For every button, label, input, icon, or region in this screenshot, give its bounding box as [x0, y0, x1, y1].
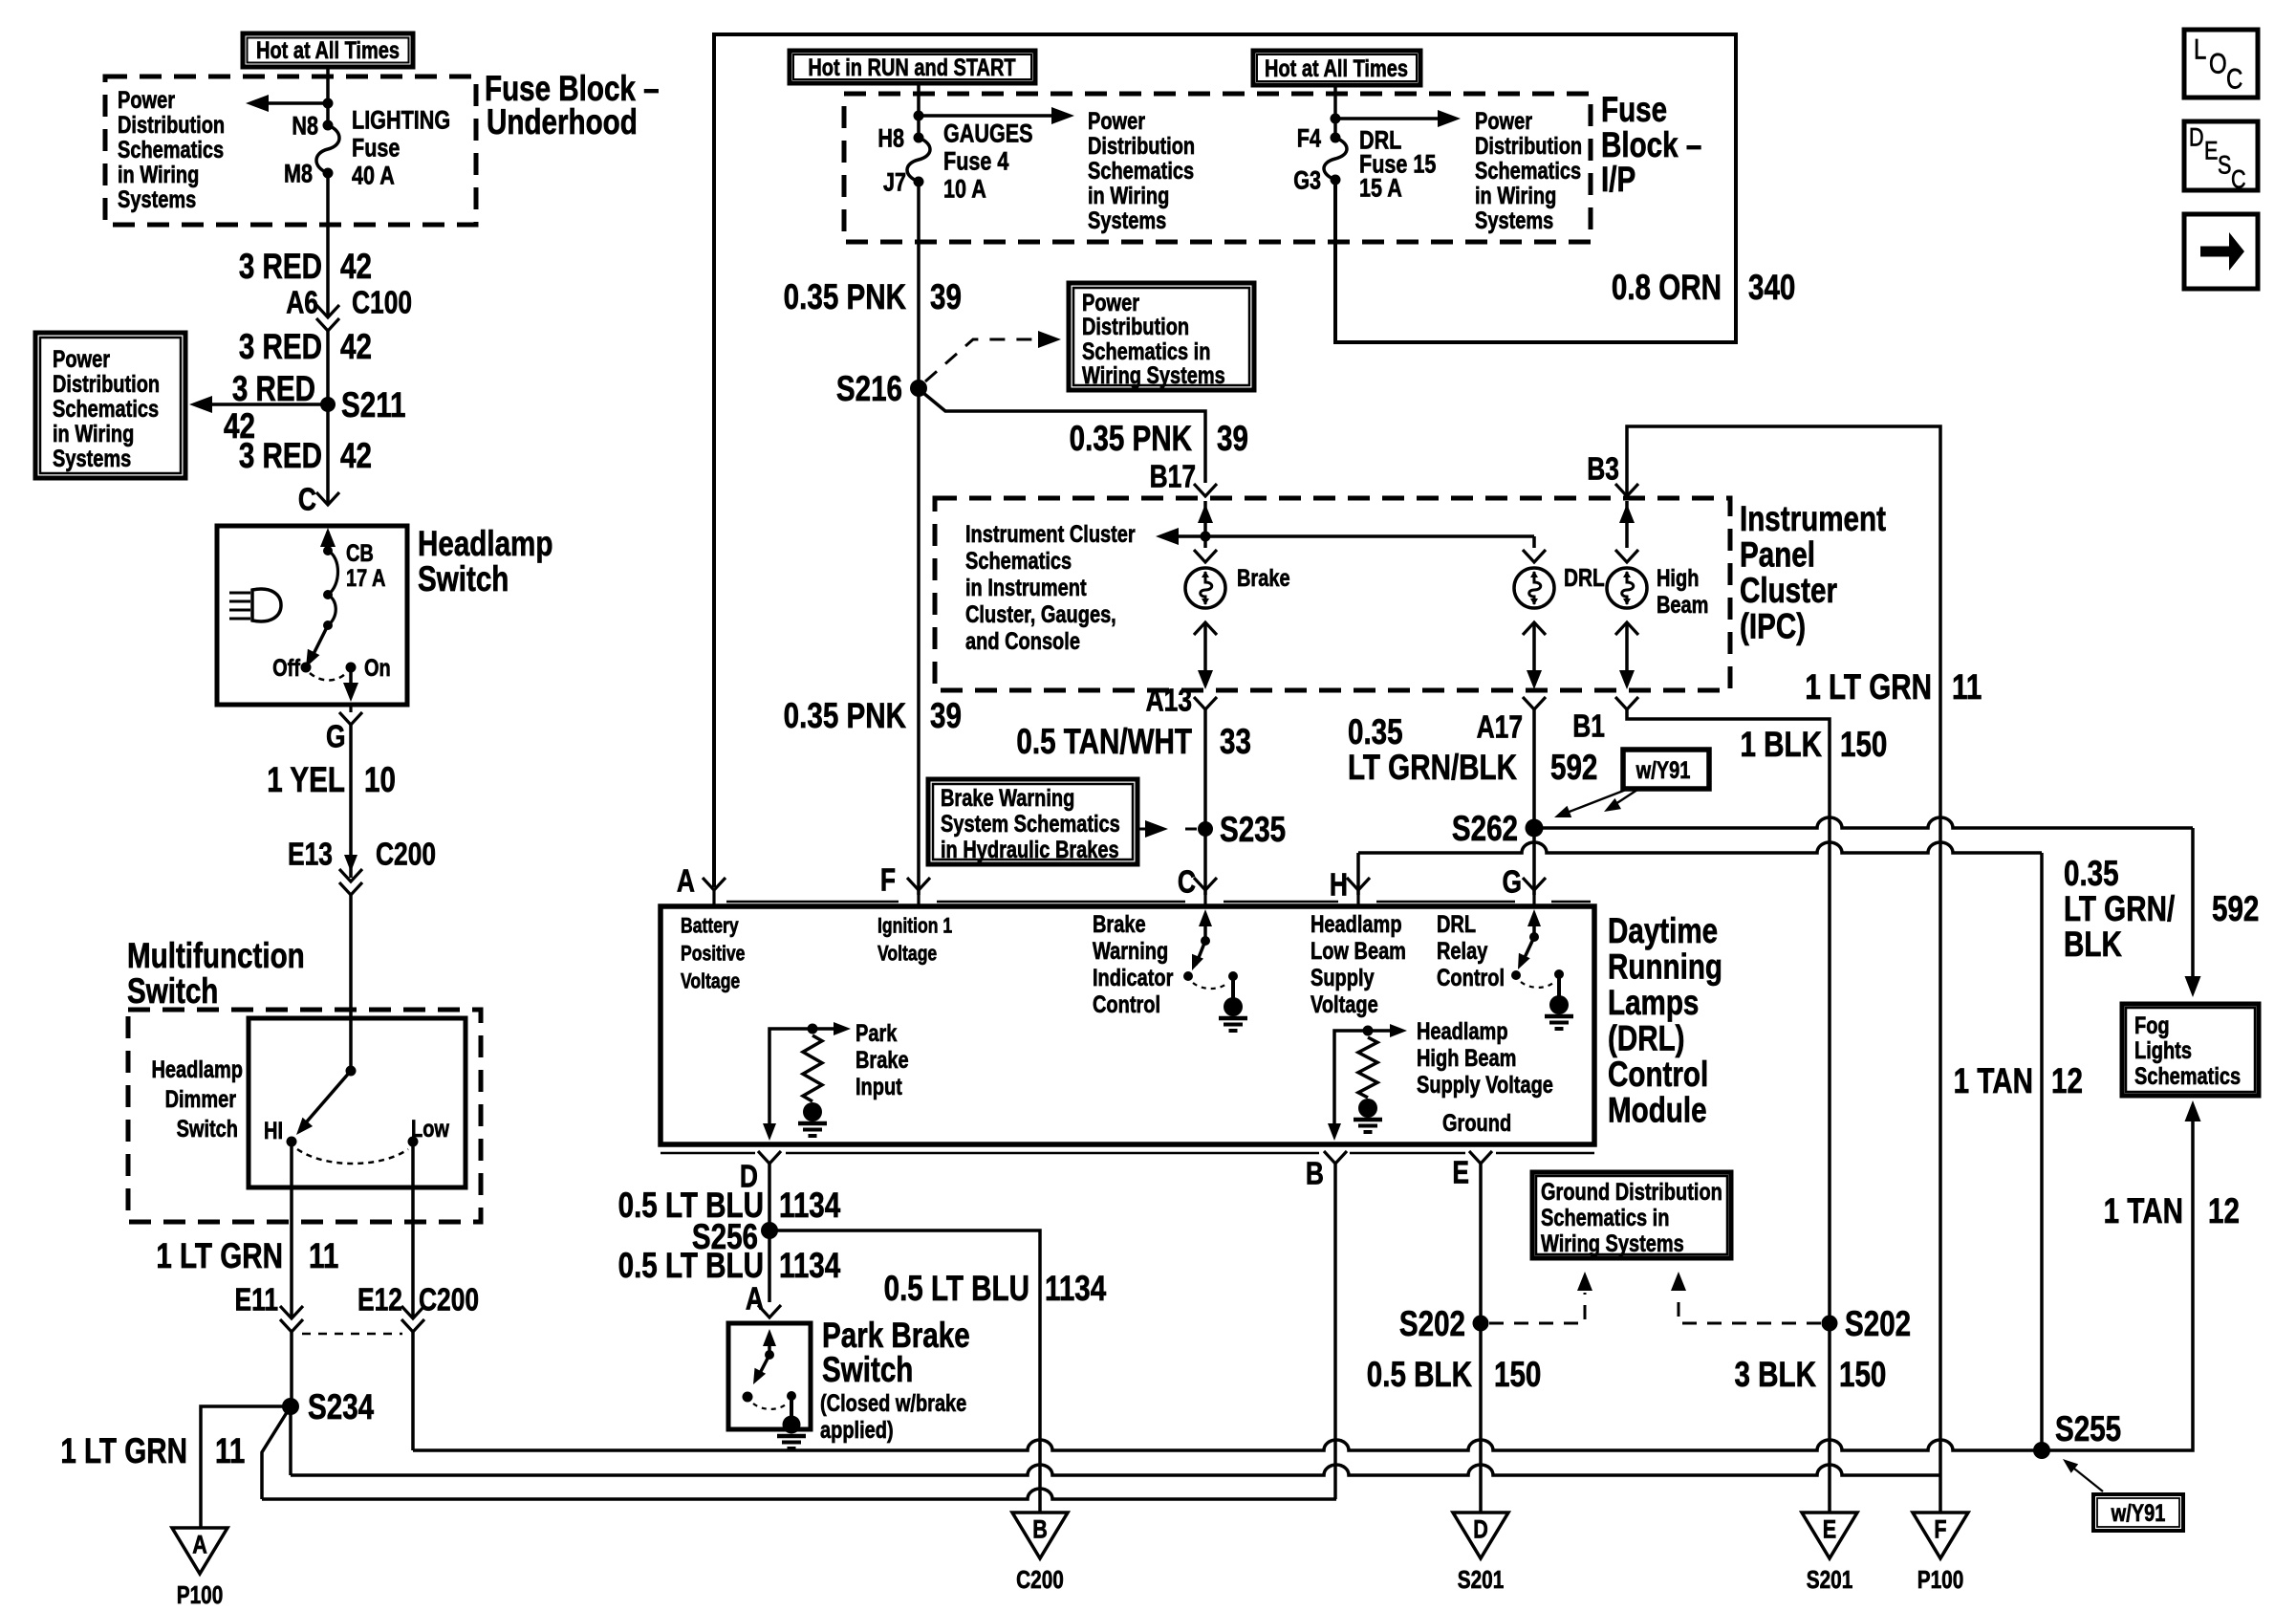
wire: 0.35 LT GRN/BLK 592 from A17 to S262 [1532, 709, 1536, 828]
svg-text:0.35 PNK: 0.35 PNK [1070, 420, 1192, 459]
circuit breaker CB arcs [328, 551, 338, 625]
connector chevron B17 [1194, 484, 1217, 496]
wire: Hot at All Times feed down to LIGHTING fuse [326, 67, 330, 125]
node S202 (right) [1822, 1316, 1838, 1332]
wire: 3 RED 42 from C100 to S211 [326, 331, 330, 404]
wire: arrow to power distribution (DRL) [1335, 117, 1452, 120]
svg-text:S262: S262 [1452, 810, 1518, 849]
svg-text:E: E [1452, 1156, 1469, 1190]
svg-text:Off: Off [272, 655, 300, 682]
power label box: Hot at All Times (I/P) [1253, 51, 1420, 85]
svg-text:Fuse: Fuse [1601, 91, 1667, 130]
svg-text:1134: 1134 [779, 1247, 841, 1286]
svg-text:592: 592 [1550, 749, 1597, 788]
ground symbol (brake driver) [1224, 997, 1243, 1016]
svg-text:Systems: Systems [53, 446, 131, 472]
svg-text:High Beam: High Beam [1417, 1045, 1516, 1072]
svg-text:Headlamp: Headlamp [1310, 911, 1402, 938]
svg-text:On: On [364, 655, 391, 682]
svg-text:D: D [2189, 123, 2204, 152]
park brake switch pivot dot [765, 1350, 774, 1360]
indicator lamp: DRL [1514, 568, 1554, 608]
svg-text:3 RED: 3 RED [239, 328, 322, 367]
svg-text:A: A [192, 1531, 207, 1559]
legend box DESC [2184, 121, 2258, 190]
svg-text:40 A: 40 A [352, 162, 395, 190]
offpage triangle D S201 [1453, 1513, 1508, 1558]
svg-text:39: 39 [930, 697, 962, 736]
DRL relay driver: arrow up [1532, 914, 1536, 937]
power label box: Hot in RUN and START [790, 51, 1035, 83]
svg-text:Schematics: Schematics [53, 396, 159, 423]
node S235 [1198, 821, 1213, 837]
svg-text:1 BLK: 1 BLK [1740, 726, 1822, 765]
wire: brake indicator down arrow to A13 [1203, 622, 1207, 683]
svg-text:A13: A13 [1146, 684, 1192, 718]
node S211 [320, 397, 336, 412]
svg-text:in Wiring: in Wiring [118, 162, 199, 188]
svg-text:0.35: 0.35 [2064, 855, 2119, 894]
svg-text:Distribution: Distribution [1475, 133, 1582, 160]
wire: HI output down to E11 [290, 1142, 293, 1317]
brake warning driver pivot dot [1201, 936, 1210, 946]
svg-text:Power: Power [118, 87, 175, 114]
svg-text:Voltage: Voltage [877, 943, 937, 966]
svg-text:1 LT GRN: 1 LT GRN [1805, 668, 1932, 708]
svg-text:1134: 1134 [1045, 1270, 1107, 1309]
svg-text:11: 11 [309, 1237, 338, 1276]
node: junction on GAUGES fuse feed [914, 111, 924, 121]
dimmer switch pivot dot [346, 1066, 357, 1077]
svg-text:Schematics in: Schematics in [1541, 1205, 1669, 1231]
reference box: Ground Distribution Schematics in Wiring Systems [1532, 1172, 1731, 1258]
headlamp switch: CB contact dots [323, 546, 333, 555]
wire: headlamp low beam H to S255 (1 TAN 12) [1358, 842, 2042, 853]
connector chevron above DRL lamp [1523, 550, 1546, 562]
svg-text:Brake Warning: Brake Warning [941, 785, 1074, 812]
svg-text:Voltage: Voltage [1310, 991, 1378, 1018]
svg-text:Park Brake: Park Brake [822, 1317, 970, 1356]
dashed arrow: S216 to power distribution box [925, 339, 1047, 381]
svg-text:0.5 LT BLU: 0.5 LT BLU [618, 1247, 764, 1286]
wire: arrow to power distribution schematics (left) [254, 101, 328, 105]
park brake switch arm [757, 1355, 769, 1379]
svg-text:HI: HI [264, 1118, 283, 1144]
svg-text:Daytime: Daytime [1608, 912, 1718, 951]
wire: S262 splice line to fog lights [1534, 817, 2193, 828]
svg-text:39: 39 [930, 278, 962, 317]
svg-text:592: 592 [2212, 890, 2259, 929]
node S262 [1526, 819, 1544, 838]
node S255 [2033, 1442, 2050, 1459]
wire: B3 into IPC arrow up [1625, 501, 1629, 548]
svg-text:Switch: Switch [418, 560, 509, 599]
svg-text:LT GRN/: LT GRN/ [2064, 890, 2175, 929]
wire: S234 diagonal to lower bus [262, 1406, 291, 1499]
svg-text:42: 42 [340, 437, 372, 476]
node: junction on DRL fuse feed [1331, 114, 1341, 124]
svg-text:42: 42 [340, 248, 372, 287]
offpage triangle F P100 [1913, 1513, 1968, 1558]
svg-text:in Hydraulic Brakes: in Hydraulic Brakes [941, 837, 1119, 863]
connector chevron at headlamp switch C [316, 492, 339, 505]
svg-text:(IPC): (IPC) [1740, 607, 1806, 646]
headlamp switch: input arrow up [326, 532, 330, 551]
svg-text:G3: G3 [1293, 166, 1321, 195]
svg-text:Hot at All Times: Hot at All Times [256, 37, 400, 64]
wire: arrow to power distribution (gauges) [919, 114, 1066, 118]
connector chevron below High Beam lamp [1615, 622, 1638, 635]
svg-text:DRL: DRL [1564, 564, 1605, 592]
svg-text:CB: CB [346, 540, 374, 567]
DRL relay second contact and stem [1554, 969, 1564, 979]
svg-text:C: C [298, 483, 316, 517]
svg-text:C200: C200 [376, 838, 436, 872]
svg-text:Running: Running [1608, 947, 1722, 987]
svg-text:10 A: 10 A [943, 175, 986, 204]
svg-text:Cluster, Gauges,: Cluster, Gauges, [965, 601, 1116, 628]
wire: feed down to DRL indicator [1532, 536, 1536, 548]
offpage triangle E S201 [1802, 1513, 1857, 1558]
wire: 0.35 PNK 39 ignition feed to S216 [917, 182, 921, 388]
headlamp switch: arm to Off contact [310, 625, 328, 662]
bus wire: S234 high beam bus (bus2) [291, 1465, 1940, 1475]
svg-text:LIGHTING: LIGHTING [352, 106, 450, 135]
svg-text:Fuse 4: Fuse 4 [943, 147, 1009, 176]
reference box: Power Distribution Schematics in Wiring Systems (S216) [1069, 283, 1254, 390]
svg-text:S201: S201 [1458, 1566, 1505, 1594]
connector chevron park brake A [758, 1305, 781, 1317]
svg-text:Cluster: Cluster [1740, 572, 1837, 611]
svg-text:L: L [2194, 33, 2206, 65]
wire: S234 left to P100 A drop [201, 1406, 291, 1528]
svg-text:Schematics: Schematics [2134, 1063, 2241, 1090]
svg-text:Wiring Systems: Wiring Systems [1082, 362, 1225, 389]
svg-text:Panel: Panel [1740, 535, 1815, 575]
node S202 (left) [1473, 1316, 1489, 1332]
svg-text:B: B [1032, 1515, 1048, 1544]
headlamp switch: output arrow down from On [349, 667, 353, 694]
callout arrows w/Y91 to S262 [1562, 790, 1626, 815]
svg-text:E: E [2204, 137, 2218, 165]
connector C100 inline chevrons [316, 305, 339, 317]
headlamp switch box [217, 526, 407, 705]
svg-text:F: F [1934, 1515, 1946, 1544]
svg-text:C200: C200 [1016, 1566, 1064, 1594]
svg-text:S201: S201 [1807, 1566, 1853, 1594]
brake warning driver contact dot [1183, 971, 1193, 981]
svg-text:Power: Power [1088, 108, 1145, 135]
svg-text:11: 11 [1952, 668, 1982, 708]
svg-text:S216: S216 [836, 370, 902, 409]
park brake switch: arrow up [768, 1334, 771, 1355]
svg-text:Systems: Systems [1475, 207, 1553, 234]
svg-text:15 A: 15 A [1359, 174, 1402, 203]
svg-text:Distribution: Distribution [53, 371, 160, 398]
svg-text:S202: S202 [1845, 1305, 1911, 1344]
DRL relay driver arm [1522, 937, 1534, 964]
ground symbol (park brake switch) [783, 1416, 801, 1434]
svg-text:Instrument: Instrument [1740, 500, 1886, 539]
contact dot Off [301, 663, 312, 673]
svg-text:E12: E12 [357, 1283, 402, 1317]
svg-text:11: 11 [215, 1432, 245, 1471]
wire: 1 YEL 10 from G to C200 [349, 725, 353, 878]
node S234 [282, 1398, 299, 1415]
svg-text:Control: Control [1093, 991, 1160, 1018]
wire: 3 RED 42 arrow from S211 to reference box [198, 403, 328, 406]
svg-text:B3: B3 [1587, 452, 1619, 487]
svg-text:O: O [2209, 47, 2227, 79]
offpage triangle B C200 [1012, 1513, 1068, 1558]
svg-text:150: 150 [1840, 726, 1887, 765]
svg-text:Multifunction: Multifunction [127, 937, 305, 976]
svg-text:Schematics: Schematics [965, 548, 1072, 575]
svg-text:System Schematics: System Schematics [941, 811, 1120, 838]
svg-text:Input: Input [856, 1074, 902, 1100]
wire: S234 down to mid bus [289, 1406, 292, 1475]
wire: 0.5 TAN/WHT 33 from A13 to S235 [1203, 709, 1207, 829]
dashed throw arc Off-On [310, 673, 346, 681]
svg-text:A: A [746, 1282, 764, 1317]
svg-text:Supply: Supply [1310, 965, 1375, 991]
svg-text:w/Y91: w/Y91 [1635, 757, 1691, 784]
svg-text:1 LT GRN: 1 LT GRN [156, 1237, 283, 1276]
svg-text:Power: Power [53, 346, 110, 373]
contact dot Low [408, 1137, 419, 1147]
svg-text:High: High [1657, 565, 1699, 592]
instrument panel cluster dashed box [935, 498, 1730, 690]
svg-text:Dimmer: Dimmer [165, 1086, 237, 1113]
wire: 1 BLK 150 from B1 to S202/S201 [1627, 709, 1830, 1513]
park brake switch box [728, 1323, 811, 1429]
callout arrow w/Y91 to S255 [2069, 1465, 2103, 1491]
connector chevron at headlamp switch G [339, 712, 362, 725]
high beam resistor [1358, 1037, 1377, 1098]
wire: 0.5 LT BLU 1134 from S256 to park brake switch [768, 1230, 771, 1302]
ground symbol (high beam) [1358, 1099, 1377, 1118]
svg-text:S: S [2218, 151, 2231, 180]
svg-text:12: 12 [2051, 1062, 2083, 1101]
DRL control module box [661, 906, 1594, 1144]
svg-text:Schematics: Schematics [118, 137, 224, 163]
svg-text:Wiring Systems: Wiring Systems [1541, 1230, 1684, 1257]
wire: RUN/START feed down [917, 83, 921, 138]
dashed throw arc HI-Low [297, 1149, 408, 1164]
svg-text:E: E [1823, 1515, 1836, 1544]
svg-text:Control: Control [1608, 1056, 1708, 1095]
svg-text:Ground: Ground [1442, 1110, 1511, 1137]
dashed arc park brake [753, 1403, 788, 1409]
brake warning indicator driver: arrow up [1203, 914, 1207, 941]
brake driver second contact and stem [1228, 971, 1238, 981]
svg-text:F4: F4 [1297, 124, 1322, 153]
svg-text:340: 340 [1748, 269, 1795, 308]
svg-text:Warning: Warning [1093, 938, 1168, 965]
svg-text:3 BLK: 3 BLK [1734, 1356, 1816, 1395]
svg-text:Ground Distribution: Ground Distribution [1541, 1179, 1722, 1206]
wire: high beam indicator down arrow to B1 [1625, 622, 1629, 683]
svg-text:Headlamp: Headlamp [418, 525, 552, 564]
wire: 0.5 TAN/WHT from S235 to C terminal [1203, 829, 1207, 895]
arrow into fog lights box [2185, 976, 2201, 997]
wire: 0.5 LT BLU 1134 from D to S256 [768, 1164, 771, 1230]
svg-text:S235: S235 [1220, 811, 1286, 850]
wire: 1 LT GRN 11 from B terminal to high-beam bus [1333, 1164, 1337, 1499]
park brake input: junction dot [808, 1024, 818, 1034]
DRL relay driver pivot dot [1529, 932, 1539, 942]
svg-text:Power: Power [1475, 108, 1532, 135]
wire: Low output down to E12 [411, 1142, 415, 1317]
svg-text:(DRL): (DRL) [1608, 1019, 1685, 1058]
svg-text:B1: B1 [1572, 709, 1605, 744]
reference box: Brake Warning System Schematics in Hydraulic Brakes [928, 779, 1137, 864]
svg-text:Block –: Block – [1601, 126, 1701, 165]
svg-text:33: 33 [1220, 723, 1251, 762]
svg-text:Control: Control [1437, 965, 1505, 991]
svg-text:42: 42 [340, 328, 372, 367]
multifunction switch dashed box [128, 1010, 481, 1222]
wire: Hot at All Times feed down to DRL fuse [1333, 85, 1337, 138]
svg-text:Hot at All Times: Hot at All Times [1265, 55, 1408, 82]
svg-text:E11: E11 [234, 1283, 278, 1317]
high beam supply: junction dot [1363, 1026, 1374, 1036]
svg-text:Lights: Lights [2134, 1037, 2192, 1064]
wire: 1 YEL 10 from C200 to dimmer switch [349, 895, 353, 1071]
svg-text:A17: A17 [1477, 710, 1523, 745]
wire: 0.5 BLK 150 from E terminal to S202 and S201 [1479, 1164, 1483, 1513]
svg-text:H: H [1330, 868, 1348, 903]
svg-text:C200: C200 [419, 1283, 479, 1317]
callout box w/Y91 (S255) [2093, 1494, 2183, 1531]
svg-text:1134: 1134 [779, 1186, 841, 1226]
fuse: DRL Fuse 15 15 A (F4/G3) [1331, 133, 1341, 143]
svg-text:C: C [2226, 62, 2242, 95]
svg-text:Distribution: Distribution [118, 112, 225, 139]
park brake second contact and stem [787, 1391, 796, 1401]
svg-text:Fog: Fog [2134, 1012, 2170, 1039]
svg-text:A: A [677, 864, 695, 899]
svg-text:Switch: Switch [177, 1116, 238, 1143]
svg-text:150: 150 [1839, 1356, 1886, 1395]
svg-text:(Closed w/brake: (Closed w/brake [820, 1390, 966, 1417]
node: junction on LIGHTING fuse feed [323, 98, 334, 109]
svg-text:0.35: 0.35 [1348, 713, 1403, 752]
brake warning driver arm [1196, 941, 1205, 965]
svg-text:Systems: Systems [1088, 207, 1166, 234]
dashed arc DRL relay [1521, 981, 1555, 988]
connector chevron below DRL lamp [1523, 622, 1546, 635]
svg-text:0.35 PNK: 0.35 PNK [784, 278, 906, 317]
DRL relay contact dot [1511, 970, 1521, 980]
svg-text:Headlamp: Headlamp [1417, 1018, 1508, 1045]
svg-text:I/P: I/P [1601, 161, 1635, 200]
wire: B17 into IPC arrow up [1203, 501, 1207, 548]
svg-text:E13: E13 [288, 838, 333, 872]
park brake input: arrow right [812, 1027, 842, 1031]
fuse block I/P dashed box [844, 94, 1591, 242]
wire: 0.35 PNK 39 S216 down to F terminal [917, 388, 921, 895]
wire: S256 branch to C200 B [769, 1230, 1040, 1513]
indicator lamp: High Beam [1607, 568, 1647, 608]
svg-text:Fuse: Fuse [352, 134, 400, 163]
power label box: Hot at All Times (underhood) [243, 33, 413, 67]
high beam supply: arrow right [1368, 1029, 1398, 1033]
svg-text:S234: S234 [308, 1388, 374, 1427]
svg-text:0.8 ORN: 0.8 ORN [1612, 269, 1722, 308]
node S256 [761, 1222, 778, 1239]
wire: B3 up and over to 1 LT GRN 11 [1627, 426, 1940, 1513]
svg-text:Underhood: Underhood [487, 103, 638, 142]
svg-text:G: G [326, 720, 346, 754]
wire: park brake input to D terminal [769, 1029, 812, 1134]
svg-text:B17: B17 [1150, 460, 1196, 494]
svg-text:D: D [1473, 1515, 1488, 1544]
svg-text:Beam: Beam [1657, 592, 1708, 619]
wire: IPC internal feed line with arrow left [1164, 534, 1534, 538]
dimmer switch arm to HI [301, 1071, 351, 1128]
headlamp symbol icon [229, 592, 250, 595]
svg-text:0.5 LT BLU: 0.5 LT BLU [884, 1270, 1029, 1309]
svg-text:17 A: 17 A [346, 565, 385, 592]
svg-text:Systems: Systems [118, 186, 196, 213]
svg-text:Low: Low [411, 1116, 449, 1143]
legend box arrow [2184, 214, 2258, 289]
reference box: Fog Lights Schematics [2122, 1004, 2259, 1096]
svg-text:1 YEL: 1 YEL [267, 761, 345, 800]
svg-text:w/Y91: w/Y91 [2111, 1500, 2166, 1527]
wire: DRL indicator down arrow to A17 [1532, 622, 1536, 683]
svg-text:Hot in RUN and START: Hot in RUN and START [808, 54, 1015, 81]
svg-text:Brake: Brake [856, 1047, 909, 1074]
svg-text:Switch: Switch [822, 1351, 913, 1390]
svg-text:Brake: Brake [1093, 911, 1146, 938]
svg-text:BLK: BLK [2064, 925, 2122, 965]
dashed ground ref arrows from S202s [1489, 1293, 1585, 1323]
connector C200 inline arrow+chevrons [344, 855, 357, 872]
svg-text:G: G [1502, 865, 1522, 900]
svg-text:A6: A6 [286, 286, 318, 320]
svg-text:S255: S255 [2055, 1410, 2121, 1449]
connector chevron above High Beam lamp [1615, 550, 1638, 562]
wire: 3 RED 42 from S211 to headlamp switch C [326, 404, 330, 505]
callout box w/Y91 (S262) [1623, 750, 1709, 789]
svg-text:in Wiring: in Wiring [1475, 183, 1556, 209]
indicator lamp: Brake [1185, 568, 1225, 608]
svg-text:Low Beam: Low Beam [1310, 938, 1406, 965]
wire: S255 up to fog lights (1 TAN 12) [2042, 1107, 2193, 1450]
connector C200 chevrons E11 [280, 1306, 303, 1318]
svg-text:Indicator: Indicator [1093, 965, 1174, 991]
svg-text:P100: P100 [177, 1581, 224, 1609]
svg-text:3 RED: 3 RED [232, 370, 315, 409]
svg-text:Relay: Relay [1437, 938, 1488, 965]
connector chevron below Brake lamp [1194, 622, 1217, 635]
svg-text:Battery: Battery [681, 915, 739, 938]
svg-text:in Wiring: in Wiring [53, 421, 134, 447]
svg-text:Voltage: Voltage [681, 970, 740, 993]
svg-text:0.5 BLK: 0.5 BLK [1367, 1356, 1472, 1395]
svg-text:150: 150 [1494, 1356, 1541, 1395]
connector chevron above Brake lamp [1194, 550, 1217, 562]
fuse block underhood dashed box [105, 76, 476, 225]
svg-text:in Wiring: in Wiring [1088, 183, 1169, 209]
svg-text:S211: S211 [341, 386, 405, 425]
park brake input resistor [803, 1035, 822, 1101]
wire: 1 LT GRN 11 from E11 to S234 [290, 1332, 293, 1406]
wire: 0.8 ORN route (fuse block I/P outline) [714, 34, 1736, 887]
svg-text:LT GRN/BLK: LT GRN/BLK [1348, 749, 1517, 788]
